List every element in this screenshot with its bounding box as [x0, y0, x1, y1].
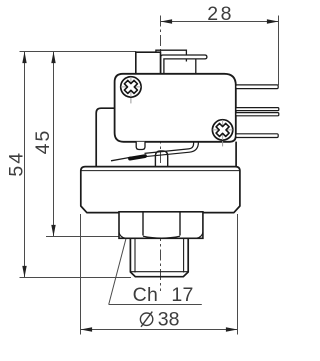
screw U2 (bottom-right)	[212, 120, 232, 147]
extension line bottom of 54 (stub tip level)	[20, 277, 132, 279]
extension line bottom of 45 (nut seat level)	[46, 236, 126, 238]
arrow 28 left	[161, 19, 173, 23]
flange body (D38 cylinder)	[81, 167, 240, 213]
arrow D38 right	[226, 327, 238, 331]
plunger to diaphragm	[155, 151, 167, 167]
right side wall under switch	[235, 142, 237, 167]
left mounting bracket	[96, 108, 114, 166]
nut chamfer arcs	[119, 232, 125, 238]
svg-text:38: 38	[158, 309, 180, 331]
extension line D38 right	[237, 214, 239, 335]
dimension 45 line	[53, 52, 55, 237]
svg-text:28: 28	[207, 3, 234, 25]
lever arm	[111, 142, 198, 161]
microswitch body	[115, 74, 236, 142]
lever pivot (filled)	[130, 156, 145, 159]
arrow 54 top	[22, 52, 26, 64]
dimension 54 line	[24, 52, 26, 278]
hex nut (Ch 17)	[119, 212, 203, 239]
block under bar	[195, 60, 197, 74]
center line (vertical dash-dot axis)	[160, 16, 162, 292]
terminal pin 3	[236, 134, 278, 138]
label D38 diameter symbol	[140, 312, 152, 327]
arrow 45 top	[51, 52, 55, 64]
arrow 54 bottom	[22, 266, 26, 278]
flange inner top line	[82, 170, 240, 172]
arrow 28 right	[267, 19, 279, 23]
extension line top (plunger top level)	[20, 51, 137, 53]
svg-text:45: 45	[32, 129, 54, 155]
dimension D38 line	[81, 329, 238, 331]
screw U1 (top-left)	[121, 77, 141, 104]
arrow 45 bottom	[51, 225, 55, 237]
actuator bar with rounded end	[161, 55, 207, 74]
terminal pin 2 (double)	[236, 108, 279, 111]
extension line D38 left	[80, 214, 82, 335]
extension line right of 28	[278, 16, 280, 86]
plunger button on top	[136, 52, 161, 74]
svg-text:54: 54	[5, 151, 27, 177]
terminal pin 1	[236, 85, 278, 89]
leader underline of Ch 17	[109, 304, 202, 306]
tab below switch	[136, 142, 145, 150]
dimension 28 line	[161, 16, 279, 86]
threaded stub	[130, 238, 188, 276]
svg-text:Ch 17: Ch 17	[133, 284, 194, 306]
arrow D38 left	[81, 327, 93, 331]
upper plate over button	[156, 50, 187, 61]
leader line Ch 17 to hex	[109, 229, 129, 305]
